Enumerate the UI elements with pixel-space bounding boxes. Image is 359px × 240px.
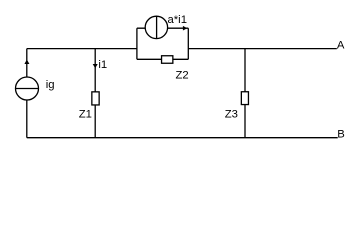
svg-text:Z3: Z3 <box>225 109 238 121</box>
wire: Z3 vertical branch <box>244 49 246 138</box>
svg-text:ig: ig <box>46 79 55 91</box>
svg-text:B: B <box>337 128 345 140</box>
wire: parallel block right stub <box>187 28 189 59</box>
impedance Z2 <box>162 56 173 64</box>
wire: i1 / Z1 vertical branch <box>94 49 96 138</box>
wire: top main left segment <box>27 48 137 50</box>
wire: dependent source branch <box>137 27 188 29</box>
svg-text:A: A <box>337 39 345 51</box>
dependent current source a*i1 <box>145 16 167 38</box>
arrow: a*i1 output direction (right) <box>183 26 187 31</box>
arrow: ig current direction (up) <box>24 60 29 65</box>
wire: bottom main to terminal B <box>27 137 338 139</box>
wire: parallel block left stub <box>136 28 138 59</box>
svg-text:Z2: Z2 <box>176 69 189 81</box>
wire: top main right segment to terminal A <box>188 48 336 50</box>
svg-text:i1: i1 <box>98 59 107 71</box>
svg-text:a*i1: a*i1 <box>168 14 187 26</box>
wire: Z2 branch <box>137 58 188 60</box>
svg-text:Z1: Z1 <box>79 109 92 121</box>
impedance Z3 <box>241 92 248 105</box>
wire: left vertical branch <box>26 49 28 138</box>
impedance Z1 <box>92 92 99 105</box>
arrow: i1 current direction (down) <box>93 64 98 68</box>
current source ig <box>16 77 39 100</box>
